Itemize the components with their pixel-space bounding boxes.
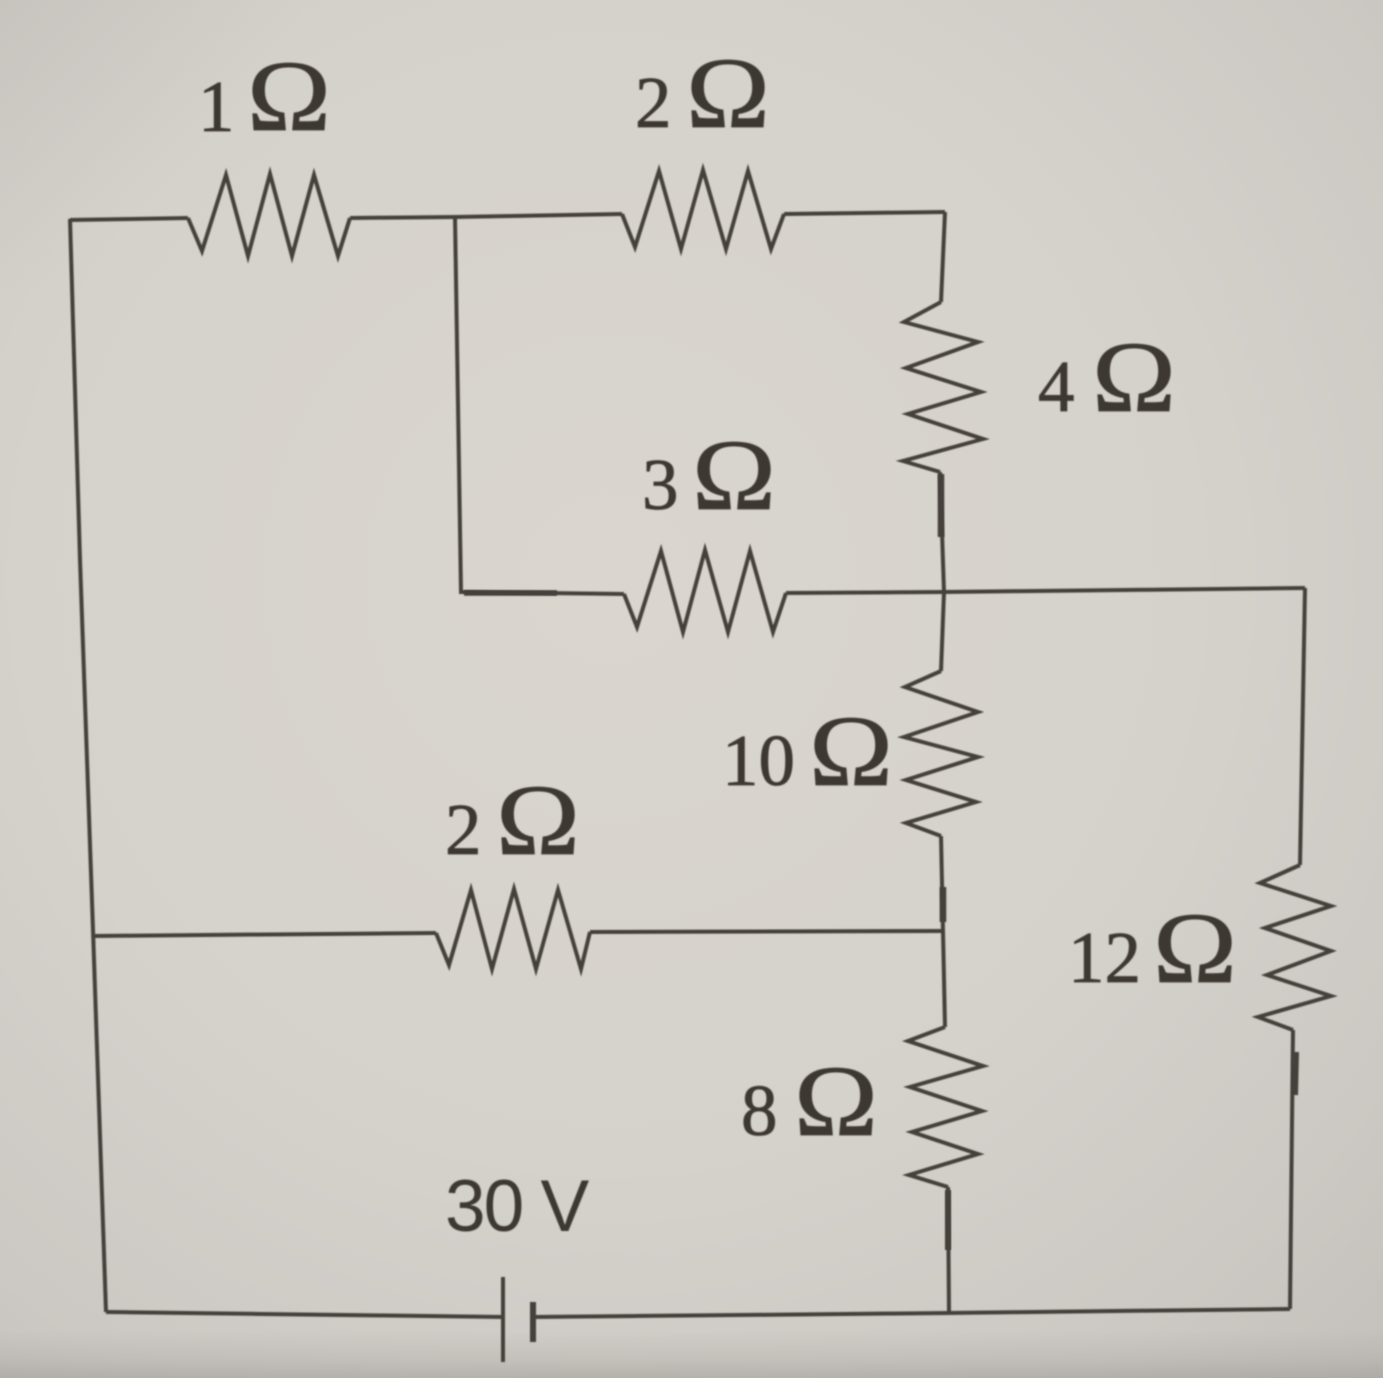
resistor R 2-ohm mid <box>436 889 590 969</box>
wire bottom left segment <box>106 1312 503 1317</box>
svg-text:2: 2 <box>445 789 482 870</box>
resistor R 3-ohm <box>624 550 786 632</box>
resistor R 12-ohm <box>1258 865 1331 1030</box>
svg-text:1: 1 <box>198 66 235 147</box>
wire 12-ohm top lead <box>1300 588 1305 865</box>
wire 10-ohm top lead <box>941 592 944 671</box>
wire top middle segment <box>350 214 622 218</box>
svg-text:Ω: Ω <box>794 1046 878 1158</box>
wire overdraw tick below 12-ohm resistor <box>1295 1052 1296 1095</box>
svg-text:Ω: Ω <box>692 420 776 532</box>
svg-text:4: 4 <box>1038 346 1075 427</box>
wire top left segment <box>70 218 188 220</box>
wire top right segment to corner <box>784 212 945 214</box>
svg-text:Ω: Ω <box>247 41 331 153</box>
wire bottom right segment <box>533 1309 1290 1317</box>
wire left vertical <box>70 219 106 1312</box>
wire overdraw tick below 8-ohm resistor <box>945 1190 951 1250</box>
svg-text:Ω: Ω <box>809 696 893 808</box>
wire 4-ohm top lead <box>941 212 945 302</box>
wire 2-ohm mid left lead from left rail <box>92 933 436 936</box>
svg-text:8: 8 <box>741 1070 778 1151</box>
wire node E to right corner <box>944 588 1305 592</box>
wire 12-ohm bottom lead <box>1290 1030 1293 1309</box>
wire overdraw tick right of vertical-1 corner on 3-ohm lead <box>464 590 557 596</box>
resistor R 1-ohm <box>188 174 350 256</box>
wire overdraw tick above node H on 10-ohm lead <box>940 887 947 922</box>
wire 4-ohm bottom lead <box>940 472 944 592</box>
wire 8-ohm bottom lead <box>948 1187 949 1313</box>
wire 8-ohm top lead <box>943 931 945 1027</box>
wire 2-ohm mid to node H <box>590 931 943 932</box>
battery V 30V negative plate <box>530 1302 536 1342</box>
resistor R 2-ohm top <box>622 170 784 249</box>
resistor R 8-ohm <box>908 1027 983 1187</box>
svg-text:3: 3 <box>642 444 679 525</box>
svg-text:Ω: Ω <box>1153 893 1237 1005</box>
wire vertical mid-left branch <box>455 217 624 594</box>
svg-text:2: 2 <box>635 62 672 143</box>
wire 3-ohm to node E <box>786 592 944 593</box>
svg-text:Ω: Ω <box>686 38 770 150</box>
battery V 30V positive plate <box>501 1277 505 1362</box>
resistor R 4-ohm <box>903 302 983 472</box>
svg-text:Ω: Ω <box>1092 322 1176 434</box>
resistor R 10-ohm <box>904 671 978 836</box>
svg-text:Ω: Ω <box>496 765 580 877</box>
svg-text:12: 12 <box>1068 917 1141 998</box>
wire overdraw tick below 4-ohm resistor <box>938 474 945 537</box>
svg-text:10: 10 <box>722 720 795 801</box>
wire 10-ohm bottom lead <box>941 836 943 931</box>
svg-text:30 V: 30 V <box>445 1166 589 1247</box>
